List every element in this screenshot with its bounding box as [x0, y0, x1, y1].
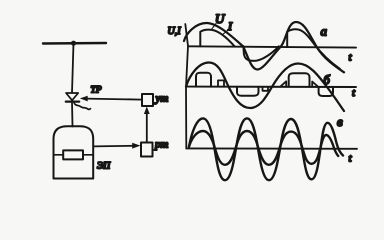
- svg-text:t: t: [352, 87, 356, 99]
- svg-text:а: а: [321, 24, 328, 39]
- svg-text:ЭП: ЭП: [97, 162, 111, 172]
- svg-text:I: I: [227, 19, 233, 33]
- curve: plot b voltage sine: [186, 63, 344, 112]
- axis: plot v time axis: [186, 147, 357, 149]
- wire: furnace to PT sensor (arrow right): [94, 145, 134, 148]
- thyristor TP (symbol): [66, 93, 79, 102]
- curve: plot b current pulse 4 (negative): [319, 87, 333, 96]
- curve: plot a merged current tail: [315, 45, 341, 70]
- wire: PT up to UT (arrow up): [146, 111, 148, 143]
- wire: left lead of heater: [54, 154, 64, 156]
- curve: plot a current negative pulse: [243, 46, 278, 61]
- block PT (temperature regulator): [141, 143, 153, 157]
- svg-text:U,I: U,I: [168, 26, 182, 37]
- block UT (control unit): [142, 94, 153, 106]
- wire: bus down to thyristor anode: [72, 43, 74, 92]
- curve: plot b current pulse 1 (positive): [196, 73, 211, 87]
- furnace enclosure EP (dome): [54, 126, 94, 178]
- thyristor gate squiggle: [74, 103, 91, 110]
- axis: plot b time axis: [186, 86, 356, 88]
- curve: plot b current pulse 2 (negative): [237, 87, 259, 96]
- curve: plot b current step 1: [218, 80, 224, 86]
- curve: plot a voltage sine U: [184, 22, 344, 72]
- curve: plot b current pulse 3 (positive): [289, 73, 310, 86]
- curve: plot v current sine (small): [189, 131, 338, 165]
- curve: plot b current step 2 (negative): [263, 87, 269, 91]
- wire: top supply bus: [43, 42, 106, 45]
- svg-text:t: t: [349, 153, 353, 165]
- curve: plot b current edge after pulse 3: [312, 82, 318, 87]
- curve: plot a current pulse 1: [200, 30, 234, 47]
- curve: plot b current edge before pulse 3: [281, 81, 287, 86]
- axis: plot a time axis: [188, 46, 356, 47]
- wire: right lead of heater: [83, 154, 93, 156]
- curve: plot a current pulse 2: [287, 29, 314, 46]
- svg-text:ТР: ТР: [91, 86, 102, 96]
- wire: UT to thyristor gate (arrow left): [86, 99, 142, 100]
- svg-text:ут: ут: [155, 93, 169, 105]
- svg-text:в: в: [337, 114, 343, 129]
- curve: plot v voltage sine (large): [189, 118, 343, 180]
- wire: thyristor cathode down to furnace: [71, 102, 74, 127]
- svg-text:t: t: [349, 52, 353, 64]
- svg-text:U: U: [215, 11, 226, 26]
- node: junction dot on bus: [71, 41, 76, 46]
- axis: common vertical axis (U,I): [185, 24, 188, 149]
- heater element (resistor) inside dome: [63, 150, 83, 159]
- svg-text:рт: рт: [154, 139, 168, 151]
